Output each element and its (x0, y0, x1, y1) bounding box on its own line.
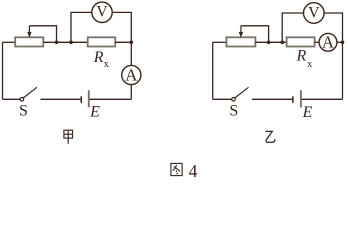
svg-text:E: E (302, 104, 313, 121)
caption 图 4 (171, 163, 182, 175)
wire voltmeter branch left leg (乙) (282, 13, 303, 42)
rheostat slider arrow (乙) (239, 26, 243, 38)
resistor Rx (甲) (88, 37, 116, 46)
wire ammeter down to bottom (甲) (130, 85, 132, 100)
voltmeter V (乙) (304, 3, 325, 24)
wire slider tap horizontal+down (甲) (29, 26, 56, 43)
resistor Rx (乙) (287, 37, 315, 46)
wire main into rheostat (乙) (213, 41, 227, 43)
rheostat R1 (甲) (15, 37, 43, 46)
wire switch to left edge (乙) (213, 98, 232, 100)
switch S pivot circle (甲) (20, 98, 24, 102)
svg-text:V: V (308, 4, 320, 21)
wire left-edge vertical (circuit 乙) (212, 42, 214, 99)
svg-text:R: R (296, 48, 307, 65)
svg-text:x: x (307, 59, 313, 70)
switch S blade (甲) (23, 87, 37, 98)
junction dot voltmeter left tap (乙) (280, 41, 284, 45)
wire right node down to ammeter (甲) (130, 42, 132, 65)
wire Rx to ammeter (乙) (315, 41, 320, 43)
wire slider tap horizontal+down (乙) (241, 26, 269, 43)
svg-text:A: A (322, 33, 334, 52)
rheostat R2 (乙) (226, 37, 255, 46)
wire battery to switch (甲) (41, 98, 82, 100)
ammeter A (甲) (122, 65, 141, 84)
wire bottom right to battery (甲) (89, 98, 132, 100)
svg-text:S: S (229, 103, 238, 120)
wire bottom right to battery (乙) (301, 98, 343, 100)
rheostat slider arrow (甲) (27, 26, 31, 38)
label Rx (甲) (93, 49, 110, 70)
wire Rx to right node (甲) (115, 41, 131, 43)
wire battery to switch (乙) (252, 98, 293, 100)
wire voltmeter branch right leg (甲) (112, 12, 131, 42)
battery E long plate (甲) (88, 90, 90, 107)
battery E short plate (甲) (80, 96, 82, 103)
battery E long plate (乙) (300, 90, 302, 107)
wire rheostat to Rx (甲) (43, 41, 87, 43)
svg-text:A: A (125, 65, 138, 84)
wire voltmeter branch left leg (甲) (71, 12, 92, 42)
wire left-edge vertical (circuit 甲) (2, 42, 4, 99)
svg-text:S: S (19, 103, 28, 120)
svg-text:x: x (104, 59, 110, 70)
junction dot slider tap (甲) (55, 41, 59, 45)
battery E short plate (乙) (292, 96, 294, 103)
svg-text:4: 4 (189, 161, 198, 181)
wire voltmeter branch right leg (乙) (324, 13, 342, 42)
junction dot right node (乙) (341, 41, 345, 45)
wire main into rheostat (甲) (3, 41, 16, 43)
wire switch to left edge (甲) (3, 98, 21, 100)
label 甲 (64, 130, 73, 144)
switch S pivot circle (乙) (232, 98, 236, 102)
svg-text:R: R (93, 49, 104, 66)
junction dot voltmeter left tap (甲) (69, 41, 73, 45)
junction dot slider tap (乙) (267, 41, 271, 45)
label 乙 (265, 131, 275, 142)
switch S blade (乙) (235, 87, 249, 98)
wire ammeter to right node (乙) (337, 41, 343, 43)
label Rx (乙) (296, 48, 313, 71)
wire right edge vertical (乙) (342, 42, 344, 99)
voltmeter V (甲) (92, 2, 112, 22)
junction dot right node (甲) (130, 41, 134, 45)
wire rheostat to Rx (乙) (255, 41, 286, 43)
svg-text:V: V (96, 4, 108, 21)
ammeter A (乙) (319, 33, 337, 52)
svg-text:E: E (89, 104, 100, 121)
